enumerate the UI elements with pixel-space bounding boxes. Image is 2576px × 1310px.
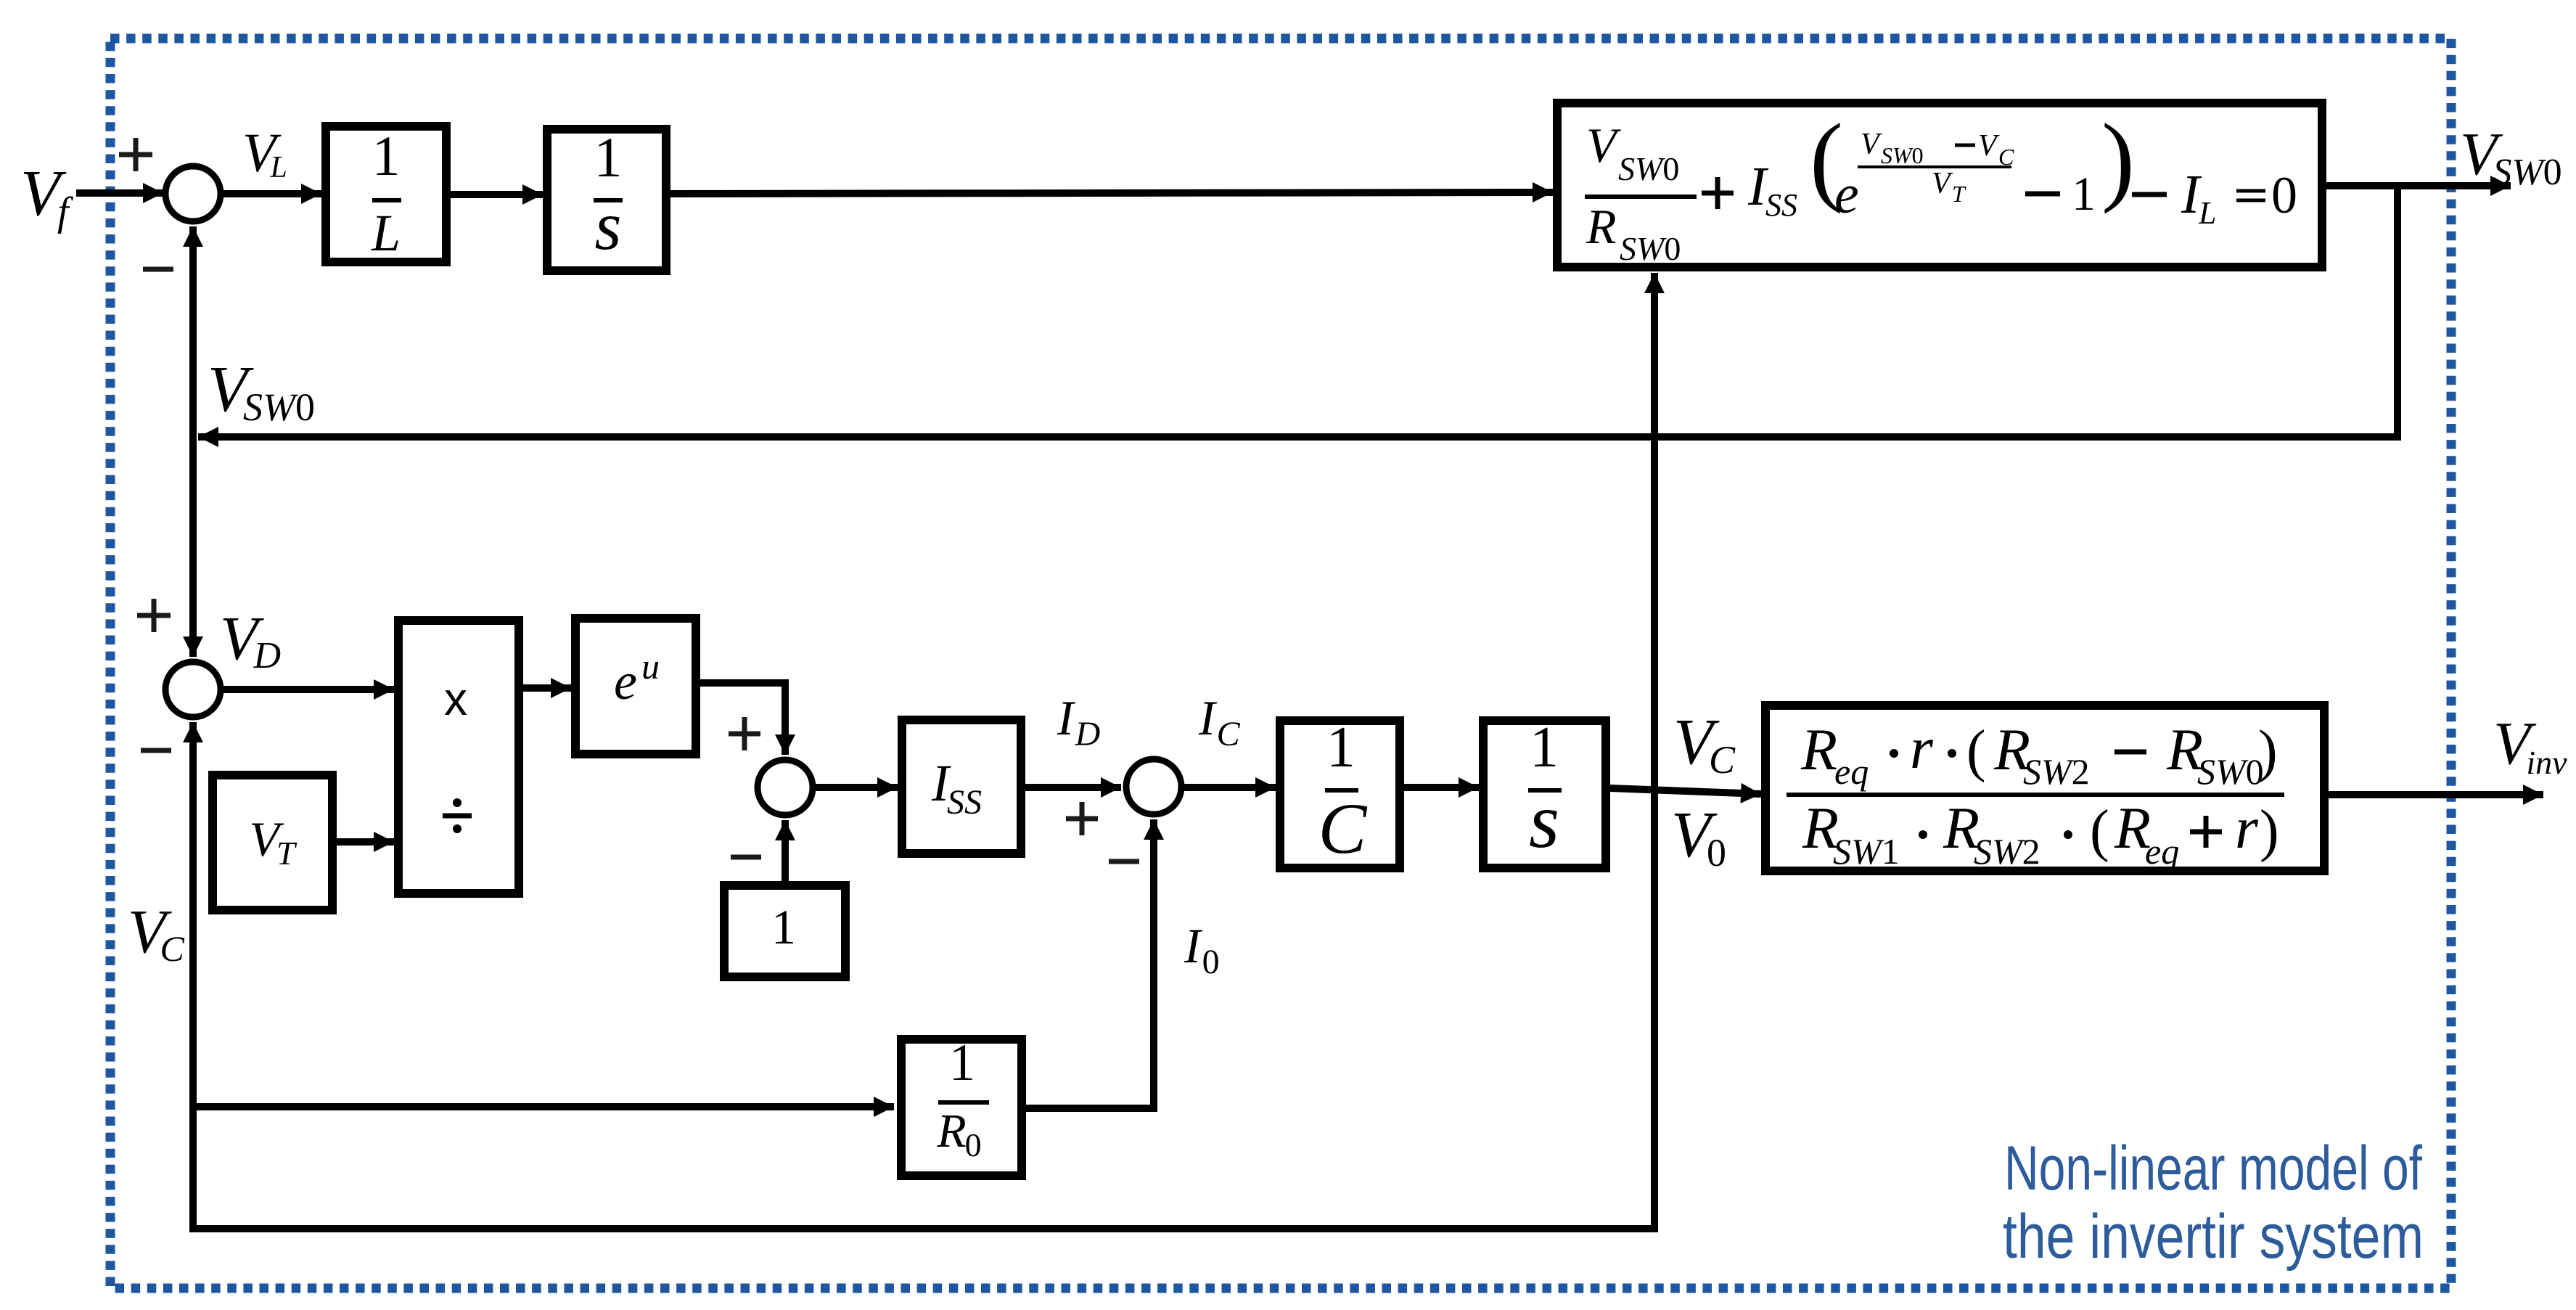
svg-text:1: 1 [1530, 716, 1559, 779]
svg-text:eq: eq [1834, 751, 1869, 792]
svg-text:1: 1 [1326, 716, 1355, 779]
svg-text:R: R [1586, 199, 1617, 254]
svg-text:e: e [1834, 164, 1859, 225]
svg-text:x: x [444, 673, 467, 725]
svg-text:SW1: SW1 [1833, 831, 1900, 872]
svg-text:s: s [1529, 778, 1559, 864]
svg-text:Non-linear model of: Non-linear model of [2004, 1134, 2423, 1203]
svg-text:T: T [1952, 181, 1966, 207]
svg-text:L: L [371, 204, 401, 262]
svg-text:SW2: SW2 [2023, 751, 2090, 792]
svg-text:u: u [641, 646, 660, 687]
svg-text:1: 1 [949, 1033, 975, 1092]
svg-text:1: 1 [2072, 168, 2096, 221]
svg-text:): ) [2260, 799, 2279, 863]
svg-text:SW0: SW0 [1881, 142, 1924, 168]
svg-text:1: 1 [771, 899, 796, 954]
svg-text:V: V [1978, 129, 2000, 163]
svg-text:(: ( [2090, 799, 2109, 863]
svg-text:1: 1 [594, 126, 623, 189]
svg-text:eq: eq [2145, 831, 2179, 872]
svg-text:V: V [1932, 167, 1953, 200]
svg-text:L: L [2198, 195, 2216, 231]
svg-text:e: e [614, 652, 637, 711]
svg-text:SW2: SW2 [1974, 831, 2040, 872]
svg-text:SW0: SW0 [1620, 230, 1681, 267]
svg-text:): ) [2258, 719, 2278, 783]
svg-text:SW0: SW0 [2197, 751, 2264, 792]
svg-text:r: r [1910, 715, 1934, 781]
svg-text:): ) [2101, 103, 2135, 214]
svg-text:R: R [1800, 716, 1837, 782]
svg-text:C: C [1318, 788, 1368, 869]
svg-text:SW0: SW0 [1618, 150, 1679, 187]
svg-text:s: s [595, 187, 622, 264]
svg-text:(: ( [1966, 719, 1986, 783]
svg-text:SS: SS [1765, 187, 1797, 223]
svg-text:r: r [2235, 795, 2259, 861]
svg-text:1: 1 [372, 124, 401, 187]
svg-text:V: V [1861, 128, 1882, 161]
svg-text:0: 0 [2271, 166, 2297, 224]
svg-text:SS: SS [947, 783, 982, 822]
svg-text:the invertir system: the invertir system [2003, 1202, 2424, 1272]
